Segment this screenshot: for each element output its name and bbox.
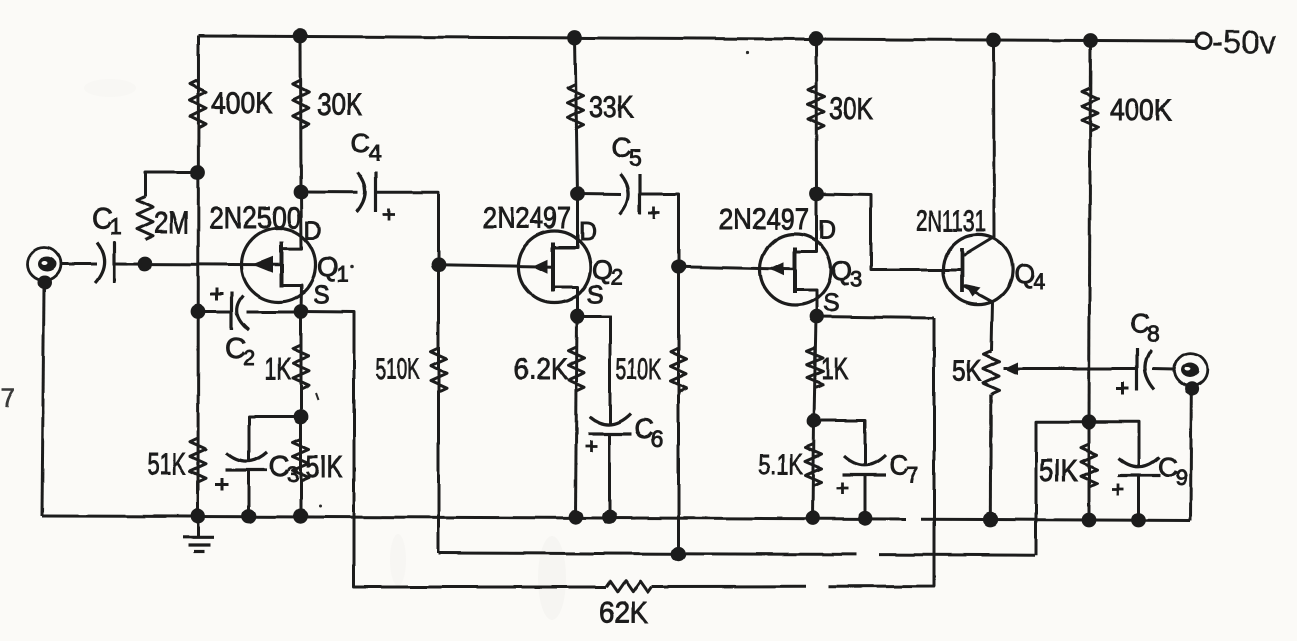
capacitor C9 straight plate [1118, 474, 1161, 477]
label C8 [1130, 308, 1160, 346]
wire 1K Q3 to 5.1K to rail [813, 421, 814, 519]
svg-text:7: 7 [906, 462, 919, 488]
svg-text:3: 3 [287, 462, 299, 487]
capacitor C2 straight plate [230, 292, 233, 330]
label 5K [952, 355, 982, 388]
transistor Q2 channel bar [551, 243, 555, 292]
svg-text:6.2K: 6.2K [514, 353, 568, 386]
ground symbol [183, 516, 214, 552]
terminal -50v supply [1196, 34, 1211, 49]
wire ground rail right [921, 519, 1191, 520]
label C5 [612, 133, 642, 171]
transistor Q4 circle [943, 235, 1012, 304]
node C2 left junction [191, 304, 206, 319]
resistor R 6.2K [569, 347, 585, 391]
terminal input jack outer [28, 248, 61, 281]
label Q3 pin D [818, 216, 836, 244]
resistor R 51K second [293, 439, 309, 481]
capacitor C5 plus [648, 207, 660, 219]
wire C7 to rail [864, 475, 867, 518]
svg-text:-50v: -50v [1212, 24, 1276, 60]
node rail at 51K second [294, 509, 309, 524]
svg-text:33K: 33K [589, 89, 634, 124]
node rail at C6 [602, 510, 617, 525]
svg-text:1: 1 [110, 214, 122, 239]
capacitor C6 straight plate [588, 432, 632, 435]
capacitor C7 straight plate [843, 473, 887, 476]
wire 33K drain line [575, 38, 578, 194]
node 1K Q3 bottom [807, 413, 822, 428]
wire 510K mid line [677, 267, 680, 554]
capacitor C4 plus [383, 209, 395, 221]
wire C7 branch [814, 421, 865, 466]
svg-text:5K: 5K [952, 355, 982, 388]
wire pot wiper [1004, 367, 1137, 370]
node rail at 5.1K [806, 511, 821, 526]
svg-text:2: 2 [611, 265, 623, 290]
node top rail at 30K [293, 29, 308, 44]
terminal output jack sleeve dot [1185, 382, 1199, 396]
wire node to C9 [1089, 422, 1139, 466]
node 1K bottom [294, 410, 309, 425]
label Q1 pin D [304, 217, 322, 245]
wire bootstrap line right [879, 553, 1035, 557]
label 400K right [1110, 92, 1172, 127]
node 2M top junction [191, 165, 206, 180]
label 2N2497 Q3 [719, 203, 809, 236]
label 51K second [306, 449, 343, 484]
node Q2 drain [570, 186, 585, 201]
svg-text:2N2497: 2N2497 [719, 203, 809, 236]
wire C6 branch [578, 317, 611, 426]
resistor R 62K [606, 581, 652, 592]
resistor R 1K Q3 [807, 348, 823, 388]
svg-text:2M: 2M [154, 205, 189, 240]
svg-text:D: D [579, 218, 597, 246]
svg-text:6: 6 [651, 426, 664, 452]
resistor R 510K mid [671, 348, 687, 392]
wire node to bootstrap [1036, 422, 1089, 555]
svg-text:C: C [351, 128, 371, 158]
transistor Q4 collector [964, 40, 995, 256]
node bootstrap at 510K mid [671, 546, 686, 561]
capacitor C6 plus [586, 441, 598, 453]
svg-text:3: 3 [850, 267, 862, 292]
label C3 [269, 451, 299, 487]
transistor Q1 source tap [282, 286, 302, 312]
resistor R 510K left [431, 348, 447, 392]
svg-text:S: S [587, 281, 604, 309]
svg-text:2N1131: 2N1131 [916, 205, 986, 238]
wire C2 to Q1 source node [246, 311, 301, 314]
label 2N1131 [916, 205, 986, 238]
wire Q2 drain to C5 [578, 192, 622, 196]
svg-text:30K: 30K [317, 87, 362, 122]
label Q1 pin S [313, 281, 330, 309]
svg-text:8: 8 [1147, 320, 1160, 346]
label 30K right [829, 91, 873, 126]
label 2M [154, 205, 189, 240]
label 51K left [147, 446, 186, 481]
transistor Q2 circle [518, 231, 590, 303]
transistor Q2 source tap [553, 287, 578, 316]
capacitor C7 plus [837, 483, 849, 495]
label Q3 pin S [823, 289, 840, 317]
svg-text:2: 2 [243, 345, 255, 370]
capacitor C7 curved plate [844, 455, 886, 465]
transistor Q1 gate arrow [253, 256, 274, 273]
capacitor C8 plus [1116, 382, 1129, 395]
node top rail at 33K [568, 30, 583, 45]
capacitor C2 curved plate [237, 296, 249, 331]
capacitor C8 straight plate [1135, 348, 1138, 391]
transistor Q3 channel bar [793, 247, 797, 293]
resistor R 33K [568, 84, 584, 129]
stray page mark [1, 383, 15, 413]
capacitor C2 plus [210, 288, 223, 301]
node rail at 6.2K [568, 509, 583, 524]
transistor Q3 gate arrow [770, 262, 785, 276]
wire C4 to 510K line [376, 192, 439, 264]
capacitor C3 plus [215, 478, 228, 491]
svg-text:S: S [313, 281, 330, 309]
wire Q2 source to 6.2K [576, 316, 578, 517]
wire Q3 drain to Q4 base [817, 194, 963, 270]
wire C3 branch [249, 417, 301, 461]
node Q1 source [294, 304, 309, 319]
transistor Q4 base bar [960, 248, 964, 292]
wire Q1 source to feedback [301, 312, 606, 588]
wire 30K right drain line [815, 39, 819, 195]
svg-text:1: 1 [336, 262, 348, 287]
label 5.1K [758, 449, 803, 481]
svg-text:5: 5 [629, 145, 642, 171]
label C2 [225, 333, 255, 370]
transistor Q3 source tap [795, 290, 817, 317]
wire input sleeve down [42, 288, 44, 516]
wire C9 to rail [1138, 476, 1141, 521]
wire Q2 gate line [439, 265, 554, 267]
wire 2M top connector [145, 172, 198, 196]
wire input to C1 [60, 263, 96, 266]
wire C8 to output [1152, 368, 1175, 372]
label 2N2497 Q2 [483, 202, 571, 235]
svg-text:400K: 400K [211, 85, 273, 120]
label 510K mid [616, 353, 661, 386]
label 6.2K [514, 353, 568, 386]
svg-text:5IK: 5IK [1039, 453, 1078, 488]
pot wiper arrow [1004, 362, 1018, 375]
capacitor C1 curved plate [95, 242, 104, 283]
resistor R 400K left [190, 80, 206, 128]
transistor Q4 emitter [964, 286, 993, 352]
node Q3 gate [671, 259, 686, 274]
svg-text:510K: 510K [616, 353, 661, 386]
node rail at 5K [983, 512, 998, 527]
svg-text:51K: 51K [147, 446, 186, 481]
ink speck above ground rail [319, 505, 322, 508]
node Q3 source [809, 309, 824, 324]
node Q2 source [570, 309, 585, 324]
capacitor C5 curved plate [620, 174, 629, 214]
svg-text:62K: 62K [599, 595, 648, 630]
resistor R 5K pot [984, 351, 1000, 394]
wire C2 left [198, 310, 230, 313]
wire 62K right segment [652, 585, 806, 588]
svg-text:2N2500: 2N2500 [209, 200, 301, 235]
resistor R 51K right [1081, 444, 1097, 487]
resistor R 30K right [808, 86, 824, 130]
capacitor C9 plus [1112, 484, 1124, 496]
svg-text:S: S [823, 289, 840, 317]
capacitor C6 curved plate [590, 414, 631, 425]
terminal input jack sleeve dot [38, 276, 52, 290]
node top rail at 30K right [809, 31, 824, 46]
transistor Q1 channel bar [280, 242, 284, 288]
node top rail at Q4 collector [986, 33, 1001, 48]
resistor R 2M [137, 196, 153, 240]
label 400K left [211, 85, 273, 120]
transistor Q4 emitter arrow [965, 284, 981, 297]
node rail at C7 [858, 511, 873, 526]
wire output sleeve to rail [1189, 393, 1193, 521]
wire C3 to ground rail [247, 470, 250, 516]
svg-text:1K: 1K [821, 351, 848, 386]
svg-text:5IK: 5IK [306, 449, 343, 484]
node rail at C3 [241, 509, 256, 524]
label C4 [351, 128, 382, 166]
ink speck near 1K node [316, 393, 319, 400]
node Q1 drain [294, 185, 309, 200]
capacitor C4 straight plate [374, 172, 377, 212]
terminal output jack pin [1181, 363, 1199, 378]
label Q3 [831, 256, 862, 292]
wire ground rail left [42, 516, 906, 519]
wire Q1 drain to C4 [301, 191, 358, 194]
label C9 [1158, 452, 1188, 490]
label 1K Q3 [821, 351, 848, 386]
svg-text:7: 7 [1, 383, 15, 413]
ink speck near Q1 label [350, 265, 354, 269]
capacitor C4 curved plate [357, 172, 366, 212]
wire bootstrap line left [439, 553, 858, 554]
node Q2 gate [431, 257, 446, 272]
svg-text:1K: 1K [265, 351, 291, 386]
label 51K right [1039, 453, 1078, 488]
label Q2 pin S [587, 281, 604, 309]
label -50v [1212, 24, 1276, 60]
wire 5K to rail [989, 394, 993, 522]
wire 51K second to rail [300, 417, 303, 516]
label 33K [589, 89, 634, 124]
svg-text:4: 4 [1033, 269, 1045, 294]
transistor Q3 drain tap [795, 194, 817, 252]
label C7 [889, 450, 919, 488]
svg-text:2N2497: 2N2497 [483, 202, 571, 235]
capacitor C3 straight plate [226, 468, 268, 471]
wire 400K right line [1089, 41, 1091, 422]
ink speck top middle [745, 51, 748, 54]
svg-text:30K: 30K [829, 91, 873, 126]
svg-text:4: 4 [369, 140, 382, 166]
svg-text:Q: Q [317, 252, 338, 282]
transistor Q2 drain tap [553, 194, 578, 248]
wire 30K drain line [299, 36, 303, 192]
node rail at C9 [1132, 513, 1147, 528]
wire Q3 gate line [679, 267, 796, 269]
label 1K [265, 351, 291, 386]
node rail at 400K-51K [191, 509, 206, 524]
label Q2 [592, 255, 623, 290]
wire Q1 source to 1K [300, 312, 303, 418]
wire 510K left line [437, 265, 440, 553]
wire 51K right to rail [1088, 422, 1091, 520]
node 2M bottom junction [138, 257, 153, 272]
resistor R 30K left [293, 80, 309, 128]
label Q1 [317, 252, 348, 287]
capacitor C9 curved plate [1119, 457, 1160, 467]
wire 400K-2M-51K vertical line [197, 36, 201, 517]
capacitor C8 curved plate [1145, 350, 1155, 390]
wire 62K right segment2 [828, 318, 934, 586]
label 2N2500 [209, 200, 301, 235]
label Q2 pin D [579, 218, 597, 246]
wire C6 to rail [608, 434, 611, 517]
capacitor C1 straight plate [112, 241, 115, 283]
label 30K left [317, 87, 362, 122]
resistor R 1K [293, 345, 309, 389]
transistor Q3 circle [760, 234, 831, 305]
transistor Q1 circle [242, 228, 316, 302]
label 62K [599, 595, 648, 630]
wire Q3 source to feedback line [817, 317, 935, 319]
node top rail at 400K right [1083, 33, 1098, 48]
wire Q3 source to 1K [814, 317, 816, 421]
resistor R 51K left [190, 438, 206, 482]
label Q4 [1014, 259, 1045, 294]
transistor Q2 gate arrow [532, 259, 548, 274]
svg-text:Q: Q [1014, 259, 1035, 289]
resistor R 400K right [1082, 88, 1098, 131]
label C1 [92, 203, 122, 239]
svg-text:5.1K: 5.1K [758, 449, 803, 481]
label C6 [634, 414, 664, 452]
wire C5 to 510K mid line [640, 194, 679, 267]
terminal input jack pin [38, 257, 56, 272]
terminal output jack outer [1174, 353, 1207, 386]
node 51K C9 top [1082, 414, 1097, 429]
wire C1 to Q1 gate [114, 263, 282, 267]
resistor R 5.1K [806, 444, 822, 486]
svg-text:510K: 510K [376, 353, 419, 386]
label 510K left [376, 353, 419, 386]
svg-text:D: D [818, 216, 836, 244]
capacitor C5 straight plate [638, 174, 641, 214]
node rail at 51K right [1082, 513, 1097, 528]
svg-text:Q: Q [831, 256, 852, 286]
node Q3 drain [809, 187, 824, 202]
svg-text:9: 9 [1175, 464, 1188, 490]
svg-text:400K: 400K [1110, 92, 1172, 127]
svg-text:D: D [304, 217, 322, 245]
capacitor C3 curved plate [227, 452, 268, 461]
transistor Q1 drain tap [282, 192, 302, 249]
wire top supply rail [199, 36, 1197, 41]
